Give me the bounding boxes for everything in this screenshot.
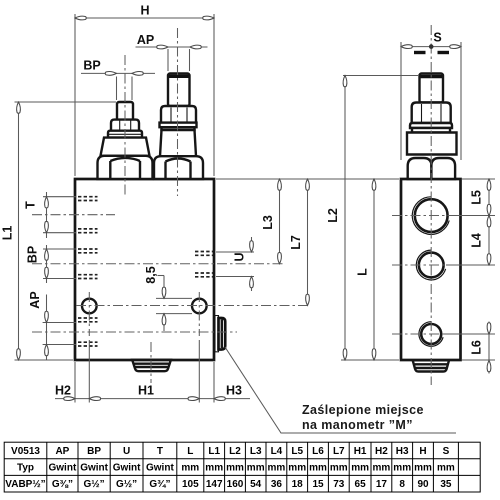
svg-text:105: 105 — [182, 479, 199, 490]
svg-text:BP: BP — [83, 59, 100, 73]
svg-text:mm: mm — [373, 463, 391, 474]
svg-text:160: 160 — [227, 479, 244, 490]
dimension H2 H1 H3 line — [55, 398, 250, 400]
right valve washer — [410, 123, 452, 128]
svg-text:Gwint: Gwint — [49, 463, 77, 474]
svg-text:L2: L2 — [229, 446, 241, 457]
right bottom T plug — [413, 360, 449, 371]
leader line to gauge port note — [225, 347, 456, 433]
dimension L2 — [344, 76, 346, 361]
svg-text:mm: mm — [226, 463, 244, 474]
svg-text:L2: L2 — [326, 208, 340, 223]
svg-text:VABP½”: VABP½” — [5, 479, 45, 490]
svg-text:Gwint: Gwint — [146, 463, 174, 474]
dimension S — [401, 46, 461, 48]
BP valve hex nut — [98, 156, 153, 179]
extension lines hole diameter 8,5 — [156, 297, 192, 299]
svg-text:U: U — [123, 446, 130, 457]
svg-text:AP: AP — [28, 291, 42, 308]
dimension U — [251, 237, 253, 252]
axis circle BP/U right view — [392, 264, 495, 266]
svg-text:65: 65 — [355, 479, 367, 490]
svg-text:73: 73 — [333, 479, 345, 490]
extension lines BP top — [116, 77, 118, 101]
svg-text:U: U — [233, 252, 247, 261]
BP valve locknut — [111, 120, 139, 131]
svg-text:Typ: Typ — [17, 463, 34, 474]
centerline bottom plug left view — [150, 342, 152, 383]
svg-text:T: T — [24, 201, 38, 209]
svg-text:H1: H1 — [138, 384, 154, 398]
bottom T port plug — [132, 360, 171, 371]
svg-text:BP: BP — [25, 246, 39, 263]
dimension 8,5 — [163, 276, 165, 299]
right valve stem — [420, 74, 444, 103]
extension lines right side L5 L4 L6 — [462, 178, 495, 180]
svg-text:G½”: G½” — [116, 479, 137, 490]
svg-text:S: S — [433, 31, 441, 45]
svg-text:mm: mm — [309, 463, 327, 474]
AP valve hex nut — [154, 156, 203, 179]
dimension H — [75, 17, 214, 19]
AP valve upper body — [160, 130, 196, 156]
axis T port horizontal — [32, 214, 115, 216]
dimension AP top — [136, 46, 208, 48]
dimension L1 — [18, 102, 20, 360]
centerline AP valve — [177, 28, 179, 196]
svg-text:BP: BP — [87, 446, 101, 457]
centerline right valve / right view vertical axis — [430, 25, 432, 385]
dimension L4 — [488, 216, 490, 265]
BP valve upper body — [101, 138, 150, 156]
front mounting hole right — [192, 299, 207, 314]
svg-text:L4: L4 — [470, 233, 484, 248]
svg-text:AP: AP — [55, 446, 69, 457]
extension line L1 top / stem top — [15, 101, 117, 103]
svg-text:H2: H2 — [375, 446, 388, 457]
dimension L5 — [488, 179, 490, 216]
axis front holes horizontal — [76, 305, 310, 307]
dimension BP left — [46, 245, 48, 283]
extension lines BP port — [43, 248, 76, 250]
right valve upper body — [407, 133, 457, 155]
front mounting hole left — [82, 299, 97, 314]
svg-text:35: 35 — [440, 479, 452, 490]
svg-text:G⅜”: G⅜” — [52, 479, 73, 490]
right valve locknut — [412, 103, 451, 124]
svg-text:Gwint: Gwint — [80, 463, 108, 474]
svg-text:H2: H2 — [55, 384, 71, 398]
BP side port thread marks — [78, 248, 98, 250]
centerline BP valve — [124, 55, 126, 196]
specification table — [4, 442, 480, 492]
dimension L6 — [488, 322, 490, 374]
right valve hex nut — [408, 158, 432, 179]
AP side port thread marks — [78, 317, 98, 319]
dimension T — [46, 192, 48, 238]
svg-text:L: L — [187, 446, 193, 457]
svg-text:18: 18 — [292, 479, 304, 490]
svg-text:V0513: V0513 — [11, 446, 40, 457]
svg-text:L3: L3 — [261, 215, 275, 230]
extension line right stem top — [343, 75, 419, 77]
centerline front hole right vertical — [198, 292, 200, 336]
svg-text:mm: mm — [205, 463, 223, 474]
svg-text:147: 147 — [206, 479, 223, 490]
dimension BP top — [81, 72, 155, 74]
svg-text:L: L — [356, 268, 370, 276]
dimension L3 — [279, 179, 281, 264]
svg-text:T: T — [157, 446, 163, 457]
svg-text:54: 54 — [250, 479, 262, 490]
svg-text:15: 15 — [312, 479, 324, 490]
axis circle T right view — [392, 215, 495, 217]
BP valve washer — [108, 131, 142, 138]
svg-text:mm: mm — [268, 463, 286, 474]
port circle BP/U (middle) — [419, 253, 444, 278]
svg-text:L1: L1 — [1, 226, 15, 241]
extension lines H1 H2 H3 — [74, 362, 76, 403]
axis BP/U port horizontal — [32, 263, 285, 265]
extension lines AP top — [167, 49, 169, 71]
extension line top of bodies shared — [216, 178, 399, 180]
dimension AP left — [46, 295, 48, 361]
svg-text:mm: mm — [247, 463, 265, 474]
AP valve locknut — [161, 106, 196, 123]
svg-text:L6: L6 — [312, 446, 324, 457]
svg-text:Gwint: Gwint — [113, 463, 141, 474]
T side port thread marks — [78, 196, 98, 198]
svg-text:90: 90 — [417, 479, 429, 490]
svg-text:8,5: 8,5 — [144, 266, 158, 283]
svg-text:mm: mm — [288, 463, 306, 474]
svg-text:H: H — [140, 4, 149, 18]
svg-text:mm: mm — [181, 463, 199, 474]
svg-text:L3: L3 — [250, 446, 262, 457]
svg-text:L5: L5 — [470, 190, 484, 205]
BP cartridge valve stem — [117, 102, 133, 121]
right view valve body — [401, 179, 461, 360]
U side port thread marks — [195, 251, 213, 253]
svg-text:L1: L1 — [208, 446, 220, 457]
dimension L7 — [307, 179, 309, 306]
extension line body bottom left — [15, 359, 74, 361]
axis circle AP right view — [392, 333, 495, 335]
extension lines T port — [43, 196, 76, 198]
svg-text:36: 36 — [271, 479, 283, 490]
port circle AP (bottom) — [421, 324, 441, 344]
svg-text:na manometr ”M”: na manometr ”M” — [302, 418, 413, 432]
port circle T (top) — [415, 199, 448, 232]
svg-text:mm: mm — [437, 463, 455, 474]
svg-text:mm: mm — [414, 463, 432, 474]
svg-text:H1: H1 — [354, 446, 367, 457]
svg-text:L4: L4 — [271, 446, 283, 457]
svg-text:H: H — [419, 446, 426, 457]
svg-text:L6: L6 — [470, 340, 484, 355]
extension lines S — [400, 42, 402, 160]
svg-text:L5: L5 — [291, 446, 303, 457]
svg-text:mm: mm — [351, 463, 369, 474]
dimension L — [373, 179, 375, 360]
svg-text:S: S — [443, 446, 450, 457]
svg-text:H3: H3 — [396, 446, 409, 457]
svg-text:8: 8 — [399, 479, 405, 490]
svg-text:Zaślepione miejsce: Zaślepione miejsce — [302, 403, 424, 417]
extension lines H — [74, 14, 76, 176]
left view valve body — [75, 179, 214, 360]
axis AP/M port horizontal — [32, 331, 237, 333]
svg-text:L7: L7 — [289, 235, 303, 250]
AP cartridge valve stem — [168, 74, 190, 107]
svg-text:L7: L7 — [333, 446, 345, 457]
extension lines AP port — [43, 322, 76, 324]
svg-text:AP: AP — [137, 33, 154, 47]
svg-text:G¾”: G¾” — [149, 479, 170, 490]
svg-text:H3: H3 — [226, 384, 242, 398]
svg-text:17: 17 — [376, 479, 388, 490]
gauge port boss M — [215, 316, 219, 352]
extension line right body bottom left side — [341, 359, 399, 361]
AP valve washer — [160, 123, 197, 128]
centerline front hole left vertical — [88, 292, 90, 336]
extension lines U port — [216, 251, 254, 253]
svg-text:mm: mm — [393, 463, 411, 474]
svg-text:G½”: G½” — [84, 479, 105, 490]
svg-text:mm: mm — [330, 463, 348, 474]
